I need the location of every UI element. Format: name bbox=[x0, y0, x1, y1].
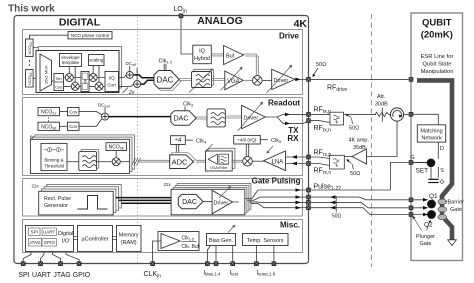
svg-text:DIGITAL: DIGITAL bbox=[59, 17, 101, 29]
svg-text:Drive: Drive bbox=[279, 32, 300, 41]
svg-text:UART: UART bbox=[43, 230, 55, 235]
DAC (readout) pentagon bbox=[171, 111, 196, 126]
pin RF_rx,n bbox=[306, 161, 311, 166]
wire driver to pin bbox=[300, 78, 308, 80]
RX digital stacked box (6x) bbox=[35, 135, 135, 169]
svg-text:22x: 22x bbox=[164, 182, 172, 187]
barrier gate ellipse 1 bbox=[438, 199, 447, 204]
svg-text:VGA: VGA bbox=[227, 79, 240, 85]
row box Readout bbox=[23, 98, 303, 176]
barrier gate ellipse 3 bbox=[438, 215, 447, 220]
IQ Hybrid box bbox=[193, 45, 212, 64]
pin JTAG bbox=[58, 261, 63, 266]
svg-text:IQ: IQ bbox=[199, 49, 206, 55]
svg-text:Gate: Gate bbox=[420, 241, 432, 247]
svg-text:DAC: DAC bbox=[182, 199, 197, 206]
svg-text:GPIO: GPIO bbox=[44, 240, 56, 245]
svg-text:50Ω: 50Ω bbox=[332, 214, 342, 220]
pin LO_in bbox=[174, 6, 187, 18]
arrow TX p bbox=[285, 113, 290, 117]
DAC (drive) stacked pentagon bbox=[156, 73, 181, 91]
scaling box bbox=[89, 55, 105, 66]
svg-text:Matching: Matching bbox=[420, 128, 442, 134]
qubit box bbox=[411, 13, 463, 261]
mux 16x1 MUX bbox=[40, 54, 52, 91]
pin Pulse 3 bbox=[306, 200, 311, 205]
pin Pulse 1 bbox=[306, 188, 311, 193]
svg-text:scaling: scaling bbox=[89, 58, 104, 63]
arrow plunger to Q2 bbox=[427, 220, 432, 231]
row box Drive bbox=[23, 30, 303, 95]
wire DAC to filter (double) bbox=[179, 79, 192, 81]
RX filter stacked bbox=[81, 149, 99, 168]
svg-text:µController: µController bbox=[81, 237, 108, 243]
svg-text:30dB: 30dB bbox=[375, 102, 388, 108]
svg-text:50Ω: 50Ω bbox=[350, 171, 360, 177]
svg-text:Barrier: Barrier bbox=[448, 200, 465, 206]
DAC (pulse) pentagon bbox=[178, 194, 203, 208]
svg-text:FIR: FIR bbox=[83, 78, 87, 84]
svg-text:Q1: Q1 bbox=[429, 193, 438, 200]
Driver (drive) amplifier bbox=[272, 69, 295, 89]
wire RF_drive to qubit bbox=[311, 78, 409, 80]
svg-text:ADC: ADC bbox=[172, 158, 188, 167]
svg-text:D: D bbox=[440, 146, 444, 152]
Sin/Cos box bbox=[54, 74, 64, 91]
pin UART bbox=[38, 261, 43, 266]
wire mixer to VGA/Filter (double) bbox=[232, 160, 243, 162]
svg-text:Driver: Driver bbox=[244, 115, 259, 121]
svg-text:(20mK): (20mK) bbox=[421, 30, 453, 41]
svg-text:VGA/Filter: VGA/Filter bbox=[210, 166, 228, 170]
wire circulator down to 4K amp bbox=[367, 121, 398, 156]
svg-text:S: S bbox=[440, 168, 444, 174]
bus slash /2x bbox=[123, 88, 135, 97]
pin Pulse 2 bbox=[306, 195, 311, 200]
pin SPI bbox=[21, 261, 26, 266]
wire bus to ADC (double) bbox=[138, 160, 170, 162]
arrows at gates bbox=[423, 198, 428, 202]
wires TX pins to balun bbox=[311, 114, 330, 122]
wire driver split to TX pins bbox=[265, 114, 307, 123]
label Barrier Gate bbox=[445, 200, 464, 214]
Memory (RAM) box bbox=[117, 226, 142, 252]
wire IQcorr to adders bbox=[119, 75, 134, 87]
svg-text:Qubit State: Qubit State bbox=[422, 62, 451, 68]
svg-text:JTAG: JTAG bbox=[29, 240, 41, 245]
pin RF_drive bbox=[306, 77, 311, 82]
pin Pulse 4 bbox=[306, 205, 311, 210]
wires driver to pulse pins (fan) bbox=[233, 190, 308, 208]
svg-text:Sin: Sin bbox=[56, 76, 62, 81]
divider-4/8 box bbox=[234, 135, 261, 144]
arrow TX n bbox=[285, 122, 290, 126]
wires temp pins bbox=[256, 246, 274, 263]
wire pulse 1 to SET gate bbox=[311, 163, 409, 191]
label Clk_1-2 bbox=[159, 59, 174, 71]
svg-text:4K amp.: 4K amp. bbox=[349, 138, 370, 144]
wires RX pins to LNA bbox=[286, 157, 307, 164]
svg-text:Att.: Att. bbox=[377, 94, 386, 100]
wire pulse 2 to qubit bbox=[311, 197, 409, 200]
svg-text:Rect. Pulse: Rect. Pulse bbox=[44, 196, 71, 202]
svg-text:Temp. Sensors: Temp. Sensors bbox=[247, 238, 284, 244]
wires balun RX to chip pins bbox=[311, 157, 330, 166]
pin qubit pulse c bbox=[409, 212, 414, 217]
multiplier RX bbox=[112, 158, 120, 166]
Bias Gen box bbox=[207, 234, 236, 246]
gate pulsing analog stacked box (22x) bbox=[177, 184, 251, 210]
svg-text:Clk1-2: Clk1-2 bbox=[159, 59, 174, 65]
wires pins to dots bbox=[413, 200, 425, 215]
svg-text:Misc.: Misc. bbox=[280, 221, 300, 230]
wire balun to attenuator bbox=[344, 114, 377, 116]
Matching Network box bbox=[417, 125, 445, 142]
fridge stage divider (dashed) bbox=[371, 14, 373, 267]
50ohm termination RF_drive bbox=[313, 62, 327, 77]
wire binning to filter bbox=[67, 161, 79, 163]
svg-text:I/O: I/O bbox=[62, 239, 70, 245]
wire IQ Hybrid to Buf (double) bbox=[211, 54, 223, 56]
svg-text:Gate: Gate bbox=[450, 207, 462, 213]
dots between NCOs bbox=[29, 60, 31, 66]
label Clk_3 bbox=[183, 102, 194, 111]
wire LO_in to IQ Hybrid bbox=[181, 18, 193, 54]
svg-text:G: G bbox=[410, 155, 414, 161]
svg-text:LNA: LNA bbox=[272, 159, 284, 165]
svg-text:Clk5: Clk5 bbox=[271, 138, 282, 144]
arrow through Driver readout bbox=[238, 104, 262, 132]
svg-text:(RAM): (RAM) bbox=[121, 240, 137, 246]
FIR box bbox=[81, 72, 89, 92]
wire Q path row bbox=[64, 85, 106, 87]
Q2 dot bbox=[427, 210, 436, 219]
pin I_bias 2 bbox=[214, 261, 219, 266]
label Att. 30dB bbox=[375, 94, 388, 108]
pulse termination arrows bbox=[330, 195, 335, 199]
wire S (source) bbox=[437, 167, 439, 178]
svg-text:Cos: Cos bbox=[55, 85, 62, 90]
row box Misc bbox=[23, 220, 303, 253]
svg-text:Clk. Buf: Clk. Buf bbox=[182, 244, 200, 250]
Driver (readout) amplifier bbox=[242, 105, 266, 129]
wire CLK_in to Clk Buf bbox=[153, 241, 161, 262]
label 4K amp. 35dB bbox=[349, 138, 370, 151]
arrow pulse 1 bbox=[296, 188, 301, 192]
VGA amplifier bbox=[225, 71, 243, 90]
wire filter to VGA (double) bbox=[212, 79, 225, 81]
divider DIGITAL|ANALOG (dashed) bbox=[137, 17, 139, 264]
svg-text:GPIO: GPIO bbox=[73, 272, 91, 279]
divider-4 box bbox=[171, 136, 186, 145]
pin RF_tx,n bbox=[306, 118, 311, 123]
wires Cos to adder bbox=[79, 112, 102, 127]
svg-text:÷4: ÷4 bbox=[175, 138, 182, 144]
wire filter to driver (double) bbox=[225, 116, 241, 118]
50ohm termination TX bbox=[345, 114, 359, 132]
barrier gate ellipse 2 bbox=[438, 207, 447, 212]
svg-text:SPI: SPI bbox=[31, 230, 38, 235]
adder readout bbox=[102, 113, 109, 120]
drive digital core stacked box (2x) bbox=[39, 47, 122, 89]
wire div box to mixer (double) bbox=[246, 144, 248, 156]
svg-text:Network: Network bbox=[421, 136, 441, 142]
svg-text:Cos: Cos bbox=[69, 124, 78, 129]
svg-text:Threshold: Threshold bbox=[44, 164, 65, 169]
svg-text:16x1 MUX: 16x1 MUX bbox=[44, 65, 49, 84]
svg-text:Buf: Buf bbox=[226, 53, 235, 59]
arrow plunger to line bbox=[413, 216, 422, 231]
wire mult to box edge bbox=[120, 161, 129, 163]
adder DC Q bbox=[134, 81, 141, 88]
NCO_01 box (drive) bbox=[26, 39, 34, 57]
filter (readout) bbox=[207, 109, 225, 127]
svg-text:QUBIT: QUBIT bbox=[422, 18, 452, 29]
multiplier env I bbox=[65, 74, 73, 82]
circulator bbox=[390, 108, 403, 121]
wires SPI/UART/JTAG/GPIO pins bbox=[23, 252, 79, 263]
label Clk_4 bbox=[185, 138, 207, 144]
multiplier scaling I bbox=[89, 74, 97, 82]
svg-text:template: template bbox=[62, 60, 80, 65]
coupling capacitor below SET bbox=[428, 167, 444, 184]
ground symbol bbox=[448, 240, 457, 246]
svg-text:Binning &: Binning & bbox=[44, 158, 63, 163]
balun TX bbox=[330, 112, 344, 125]
svg-text:Plunger: Plunger bbox=[416, 234, 435, 240]
wire D (drain) bbox=[437, 142, 439, 159]
label Plunger Gate bbox=[416, 234, 435, 247]
pin qubit SET gate bbox=[409, 160, 414, 165]
pin qubit pulse a bbox=[409, 198, 414, 203]
uController box bbox=[78, 226, 113, 252]
svg-text:SPI: SPI bbox=[18, 272, 29, 279]
multiplier env Q bbox=[71, 82, 79, 90]
50ohm termination RX bbox=[346, 159, 360, 177]
wire pin to Matching Network bbox=[413, 114, 438, 125]
Driver (pulse) amplifier bbox=[212, 190, 232, 214]
pin CLK_in bbox=[150, 261, 155, 266]
svg-text:NCO phase control: NCO phase control bbox=[71, 33, 109, 38]
pin RF_rx,p bbox=[306, 155, 311, 160]
adder DC I bbox=[126, 71, 133, 78]
arrow through VGA bbox=[221, 69, 242, 91]
wire DC_corr to adder bbox=[104, 108, 106, 114]
arrow through pulse driver bbox=[219, 188, 230, 199]
thick bus adders to DAC bbox=[133, 75, 154, 84]
svg-text:Driver: Driver bbox=[214, 200, 229, 206]
wire envelope to multipliers bbox=[69, 67, 75, 83]
svg-text:UART: UART bbox=[32, 272, 52, 279]
VGA/Filter stacked box bbox=[208, 148, 235, 168]
pin qubit RF drive bbox=[409, 77, 414, 82]
multiplier scaling Q bbox=[95, 82, 103, 90]
arrow into LNA bbox=[268, 146, 273, 152]
arrow pulse 2 bbox=[296, 195, 301, 199]
NCO phase control box bbox=[68, 32, 112, 39]
Rect Pulse Generator stacked box (22x) bbox=[47, 184, 122, 208]
pin RF_tx,p bbox=[306, 112, 311, 117]
svg-text:50Ω: 50Ω bbox=[349, 126, 359, 132]
chip boundary box (4K cryo-CMOS controller) bbox=[14, 16, 309, 264]
wire DAC to filter (double) bbox=[196, 117, 207, 119]
arrow Bias Gen bbox=[228, 226, 234, 232]
pin I_test bbox=[230, 261, 235, 266]
wire Clk4 box to ADC (double) bbox=[176, 145, 178, 153]
wire mixer to Driver bbox=[262, 79, 272, 81]
wire circulator to qubit pin bbox=[404, 113, 409, 115]
svg-text:Itest: Itest bbox=[230, 271, 239, 277]
wire I path row bbox=[64, 77, 106, 79]
wire NCO_01 to MUX bbox=[33, 47, 40, 49]
svg-text:ANALOG: ANALOG bbox=[197, 15, 243, 27]
svg-text:This work: This work bbox=[8, 4, 55, 15]
arrow into VGA/Filter bbox=[207, 144, 213, 150]
svg-text:4K: 4K bbox=[294, 18, 308, 30]
Clk Buf box bbox=[158, 232, 200, 251]
NCO_06 box (readout) bbox=[38, 122, 60, 130]
wire Buf to mixer LO port (double) bbox=[244, 54, 259, 76]
4K amp amplifier bbox=[352, 149, 367, 164]
svg-text:Hybrid: Hybrid bbox=[194, 56, 210, 62]
dots between readout NCOs bbox=[48, 117, 50, 121]
svg-text:ESR Line for: ESR Line for bbox=[421, 54, 454, 60]
svg-text:50Ω: 50Ω bbox=[316, 62, 326, 68]
envelope template box bbox=[60, 54, 82, 67]
arrow pulse 4 bbox=[296, 206, 301, 210]
ADC stacked pentagon bbox=[172, 153, 196, 167]
wire VGA/Filter to ADC (double) bbox=[196, 160, 206, 162]
pin qubit TX/RX bbox=[409, 112, 414, 117]
svg-text:DAC: DAC bbox=[174, 116, 189, 123]
arrow through filter bbox=[189, 70, 212, 93]
pulse termination rail + 50ohm bbox=[332, 196, 342, 220]
Cos box 1 bbox=[68, 108, 80, 116]
SET dot bbox=[427, 159, 436, 168]
filter (drive) with shadow bbox=[194, 69, 214, 85]
wire NCO_16 to MUX bbox=[33, 77, 40, 79]
wire DAC to driver bbox=[203, 201, 212, 203]
pin I_bias 1 bbox=[205, 261, 210, 266]
Binning & Threshold box bbox=[41, 143, 67, 170]
pin qubit pulse b bbox=[409, 206, 414, 211]
svg-text:Bias Gen.: Bias Gen. bbox=[209, 238, 234, 244]
thick bus adder to DAC bbox=[109, 116, 171, 118]
Temp Sensors box bbox=[243, 234, 289, 246]
NCO_06 box (RX) bbox=[106, 143, 127, 151]
wire LNA to mixer bbox=[252, 160, 263, 162]
mixer RX bbox=[243, 156, 253, 166]
wire filter to mult bbox=[97, 161, 112, 163]
mixer (drive) bbox=[252, 76, 262, 86]
wire MUX to Sin/Cos bbox=[52, 80, 55, 82]
svg-text:Clk4: Clk4 bbox=[196, 138, 207, 144]
Digital I/O box bbox=[26, 226, 74, 252]
bus Digital I/O to uController bbox=[74, 237, 78, 240]
svg-text:I/Q: I/Q bbox=[109, 76, 116, 81]
Buf amplifier bbox=[224, 46, 244, 65]
bus slashes ADC to digital bbox=[132, 158, 141, 166]
svg-text:JTAG: JTAG bbox=[53, 272, 70, 279]
output arrow RF drive bbox=[295, 78, 300, 82]
wire pulse 4 to qubit bbox=[311, 208, 409, 215]
svg-text:Digital: Digital bbox=[58, 231, 73, 237]
svg-text:Cos: Cos bbox=[69, 109, 78, 114]
NCO_16 box (drive) bbox=[26, 70, 34, 88]
pin I_temp 1 bbox=[254, 261, 259, 266]
arrow pulse 3 bbox=[296, 201, 301, 205]
wires bias pins bbox=[207, 246, 232, 263]
label Clk_5 bbox=[260, 138, 282, 144]
bus uController to Memory bbox=[113, 237, 117, 240]
svg-text:2x: 2x bbox=[128, 90, 135, 96]
wire pulse 3 to qubit bbox=[311, 202, 409, 207]
wire amp to balun RX bbox=[344, 156, 352, 158]
svg-text:Manipulation: Manipulation bbox=[421, 69, 454, 75]
row box Gate Pulsing bbox=[23, 179, 303, 217]
svg-text:÷4/8 (I/Q): ÷4/8 (I/Q) bbox=[237, 138, 256, 143]
attenuator symbol bbox=[375, 108, 389, 122]
svg-text:RX: RX bbox=[287, 134, 299, 143]
thick bus pulse gen to DAC bbox=[116, 198, 178, 204]
pin I_temp 2 bbox=[272, 261, 277, 266]
svg-text:Readout: Readout bbox=[268, 99, 300, 108]
wire G to SET bbox=[413, 162, 427, 164]
svg-text:Ibias,1-4: Ibias,1-4 bbox=[204, 271, 222, 277]
svg-text:DAC: DAC bbox=[157, 75, 174, 84]
Q1 dot bbox=[427, 200, 436, 209]
wire VGA to mixer bbox=[243, 79, 252, 81]
ESR line (thick) bbox=[417, 80, 452, 239]
wire scaling to multipliers bbox=[93, 66, 99, 83]
wire DC_off to adders bbox=[130, 66, 137, 81]
arrow RX p bbox=[292, 155, 298, 159]
wire NCO to mult bbox=[115, 151, 117, 158]
balun RX bbox=[330, 155, 345, 169]
svg-text:Generator: Generator bbox=[44, 203, 68, 209]
LNA amplifier bbox=[264, 151, 286, 171]
svg-text:Itemp,1-8: Itemp,1-8 bbox=[257, 271, 276, 277]
svg-text:22x: 22x bbox=[32, 184, 40, 189]
wire NCO phase control to NCO column bbox=[30, 35, 69, 39]
svg-text:Memory: Memory bbox=[119, 233, 139, 239]
arrow through Driver bbox=[267, 67, 291, 94]
arrow RX n bbox=[292, 162, 298, 166]
Cos box 2 bbox=[68, 122, 80, 130]
NCO_01 box (readout) bbox=[38, 108, 60, 116]
svg-text:Gate Pulsing: Gate Pulsing bbox=[252, 177, 301, 186]
wire attenuator to circulator bbox=[389, 114, 391, 116]
wires NCO to Cos bbox=[60, 112, 68, 127]
svg-text:Corr: Corr bbox=[107, 83, 116, 88]
svg-text:SET: SET bbox=[416, 168, 429, 175]
I/Q Corr box bbox=[105, 72, 119, 92]
pin GPIO bbox=[77, 261, 82, 266]
